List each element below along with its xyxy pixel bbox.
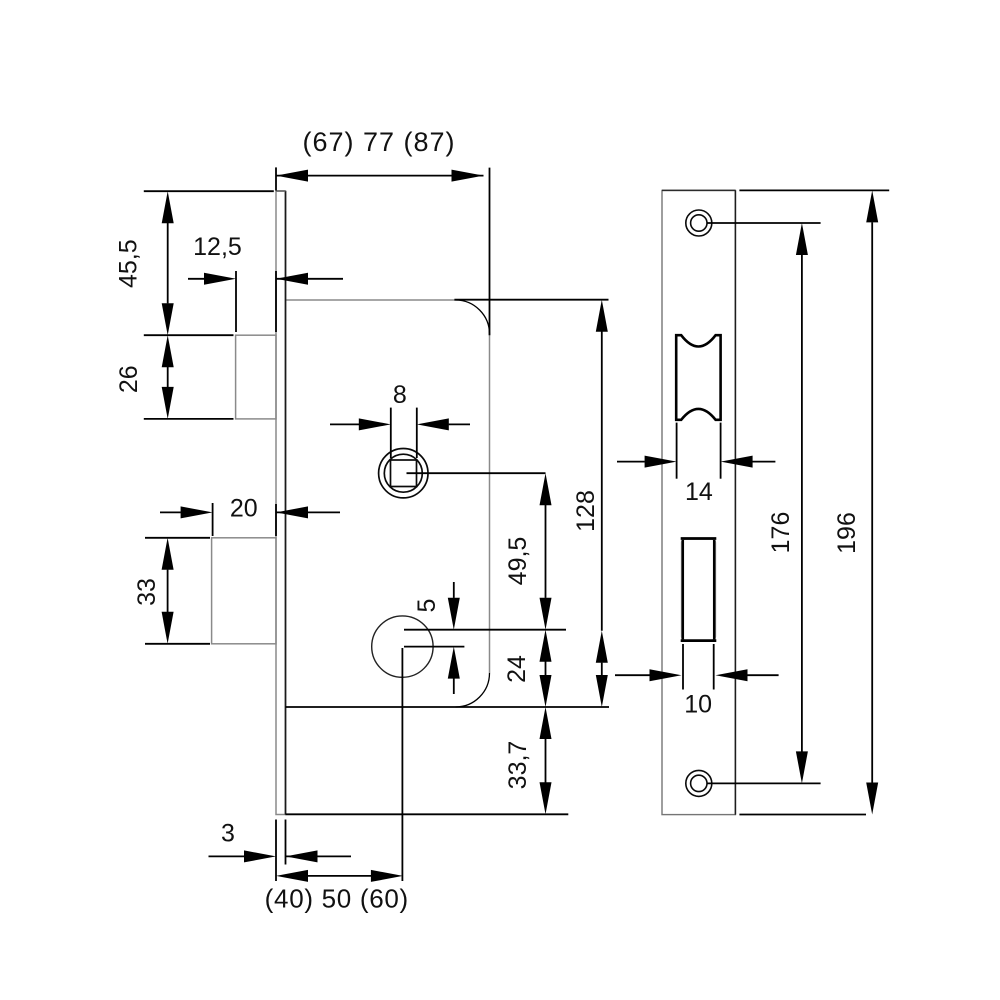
arrow dim 5 bottom: [448, 647, 460, 679]
svg-text:10: 10: [684, 690, 712, 718]
dim 24 line: [545, 662, 547, 676]
arrow dim 26 top: [162, 335, 174, 367]
svg-text:128: 128: [572, 490, 600, 532]
faceplate front top edge overlay: [662, 189, 735, 191]
cylinder hole circle: [372, 616, 433, 677]
arrow dim 33 bottom: [162, 612, 174, 644]
arrow dim 128 mid: [596, 631, 608, 663]
dim 20 lines: [160, 511, 181, 513]
dim 12,5 lines: [188, 278, 204, 280]
svg-text:20: 20: [230, 495, 258, 523]
arrow dim 33 top: [162, 538, 174, 570]
spindle centre reference line: [407, 472, 546, 474]
case left edge / faceplate right edge dark overlay: [285, 191, 287, 815]
arrow dim 24 top: [540, 630, 552, 662]
svg-text:14: 14: [685, 478, 713, 506]
arrow dim 176 top: [796, 223, 808, 255]
arrow dim 12,5 right: [276, 273, 308, 285]
arrowheads: [162, 170, 879, 882]
dim 8 lines: [330, 423, 359, 425]
svg-text:(67) 77 (87): (67) 77 (87): [302, 127, 455, 157]
svg-text:45,5: 45,5: [115, 239, 143, 288]
arrow dim 33,7 top: [540, 707, 552, 739]
arrow dim 14 left: [645, 456, 677, 468]
bolt slot bottom edge: [681, 639, 717, 642]
case right edge: [489, 334, 491, 673]
faceplate front view: [662, 190, 735, 814]
svg-text:3: 3: [221, 820, 235, 848]
arrow dim 3 left: [244, 850, 276, 862]
arrow dim 8 right: [417, 418, 449, 430]
spindle square hole: [391, 460, 417, 487]
arrow dim 49,5 top: [540, 473, 552, 505]
dim 26 lines: [167, 367, 169, 387]
dim 45,5 lines: [167, 223, 169, 303]
faceplate front right edge overlay: [734, 190, 736, 814]
screw bottom reference line: [707, 782, 821, 784]
arrow dim 128 top: [596, 300, 608, 332]
dim (40) 50 (60) line: [307, 875, 372, 877]
screw hole bottom: [686, 770, 712, 796]
arrow dim 10 left: [650, 669, 682, 681]
arrow dim 77 left: [276, 170, 308, 182]
arrow dim 196 top: [866, 190, 878, 222]
arrow dim 128 bottom: [596, 675, 608, 707]
svg-text:33: 33: [133, 578, 161, 606]
arrow dim 20 left: [181, 506, 213, 518]
arrow dim 10 right: [716, 669, 748, 681]
bolt slot left edge: [682, 540, 685, 639]
svg-text:26: 26: [115, 365, 143, 393]
dim 10 lines: [615, 674, 650, 676]
latch cutout (spool shape): [676, 335, 720, 420]
arrow dim 196 bottom: [866, 783, 878, 815]
dim 49,5 line: [545, 505, 547, 598]
case corner arc top-right: [456, 300, 490, 334]
dim 128 line: [601, 332, 603, 631]
arrow dim 5 top: [448, 598, 460, 630]
dim (67) 77 (87) line: [276, 175, 484, 177]
case top edge: [286, 299, 456, 301]
bolt slot top edge: [681, 537, 717, 540]
svg-text:(40) 50 (60): (40) 50 (60): [265, 884, 409, 914]
spindle follower outer circle: [379, 449, 428, 498]
arrow dim 50 right: [371, 870, 403, 882]
arrow dim 77 right: [452, 170, 484, 182]
svg-text:5: 5: [413, 599, 441, 613]
arrow dim 45,5 top: [162, 191, 174, 223]
dim 176 line: [801, 255, 803, 752]
case corner arc bottom-right: [456, 673, 490, 707]
arrow dim 176 bottom: [796, 751, 808, 783]
arrow dim 24 bottom: [540, 675, 552, 707]
arrow dim 45,5 bottom: [162, 303, 174, 335]
svg-text:33,7: 33,7: [504, 741, 532, 790]
arrow dim 49,5 bottom: [540, 598, 552, 630]
svg-text:24: 24: [503, 655, 531, 683]
arrow dim 12,5 left: [204, 273, 236, 285]
svg-text:49,5: 49,5: [504, 537, 532, 586]
dim 14 lines: [617, 461, 645, 463]
cylinder reference line upper: [404, 629, 566, 631]
screw top reference line: [707, 222, 821, 224]
dim 5 lines: [453, 582, 455, 598]
bolt side view: [212, 538, 276, 644]
svg-text:196: 196: [833, 512, 861, 554]
arrow dim 33,7 bottom: [540, 782, 552, 814]
dim 196 line: [871, 222, 873, 783]
bolt slot right edge: [713, 540, 716, 639]
svg-text:176: 176: [767, 512, 795, 554]
dim 33,7 line: [545, 739, 547, 783]
latch side view: [236, 335, 276, 419]
faceplate side view: [276, 191, 286, 815]
arrow dim 50 left: [276, 870, 308, 882]
arrow dim 3 right: [286, 850, 318, 862]
arrow dim 20 right: [276, 506, 308, 518]
arrow dim 8 left: [359, 418, 391, 430]
dim 33 lines: [167, 570, 169, 612]
dim 3 lines: [209, 855, 245, 857]
arrow dim 26 bottom: [162, 387, 174, 419]
bolt slot gray corner marks: [682, 539, 716, 640]
arrow dim 14 right: [721, 456, 753, 468]
screw hole top: [686, 210, 712, 236]
faceplate side top cap: [276, 190, 286, 192]
spindle follower inner circle: [384, 454, 422, 492]
cylinder centre vertical extension: [401, 648, 403, 881]
svg-text:12,5: 12,5: [193, 233, 242, 261]
cylinder centre reference line: [404, 646, 464, 648]
case bottom edge + 128 extension: [286, 706, 610, 708]
svg-text:8: 8: [393, 381, 407, 409]
